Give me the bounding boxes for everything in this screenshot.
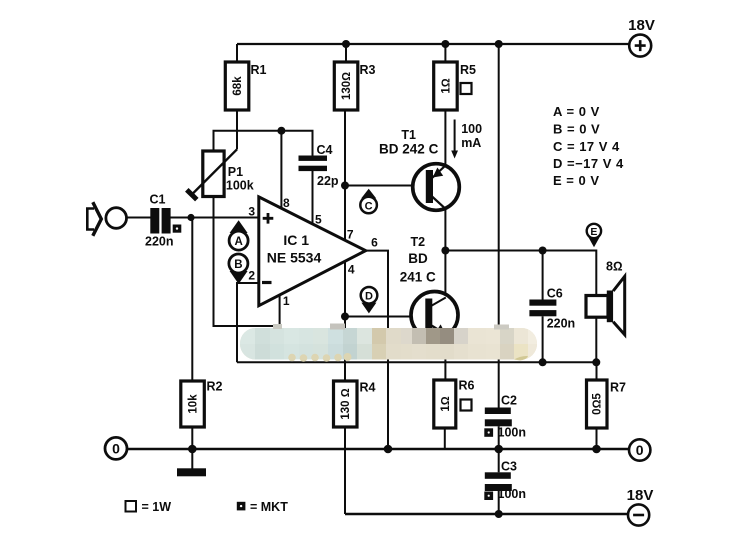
wire R6 bottom to 0V rail: [444, 428, 446, 449]
node R3 top rail junction: [342, 40, 350, 48]
svg-text:0: 0: [112, 441, 120, 457]
watermark blur pill: [240, 324, 537, 362]
node T2 base junction: [341, 313, 349, 321]
svg-text:C = 17 V 4: C = 17 V 4: [553, 139, 620, 154]
svg-text:241 C: 241 C: [400, 269, 436, 284]
op-amp U1 NE5534 triangle: [259, 197, 366, 306]
svg-text:5: 5: [315, 212, 322, 226]
svg-text:R1: R1: [251, 63, 267, 77]
node pin6 line on 0V rail: [384, 445, 393, 454]
svg-text:100: 100: [461, 122, 482, 136]
capacitor C6 220n plates: [529, 300, 556, 306]
wire P1 top terminal to C4 top: [214, 131, 313, 156]
svg-text:1Ω: 1Ω: [440, 396, 452, 411]
svg-text:100k: 100k: [226, 179, 254, 193]
svg-text:7: 7: [347, 227, 354, 241]
wire R4 bottom to -18V rail: [344, 427, 346, 514]
watermark bottom text bumps: [288, 353, 351, 362]
node input junction: [187, 214, 194, 221]
wire feedback line: [237, 361, 596, 363]
svg-text:10k: 10k: [188, 394, 200, 414]
svg-text:220n: 220n: [145, 235, 174, 249]
ground symbol: [177, 468, 206, 476]
svg-text:0Ω5: 0Ω5: [592, 393, 604, 415]
resistor R5 1ohm: [434, 62, 458, 110]
op-amp minus input sign: [262, 281, 272, 284]
svg-text:= MKT: = MKT: [250, 500, 288, 514]
potentiometer P1 100k body: [203, 151, 224, 197]
wire -18V bottom rail: [345, 513, 628, 515]
svg-text:BD: BD: [408, 251, 428, 266]
wire R2 bottom to 0V rail: [191, 427, 193, 449]
watermark olive wisp: [514, 356, 528, 361]
svg-text:100n: 100n: [498, 487, 527, 501]
wire T1 base: [345, 185, 427, 187]
svg-text:C6: C6: [547, 287, 563, 301]
svg-text:A: A: [234, 236, 242, 248]
capacitor C3 100n plates: [485, 472, 511, 479]
svg-text:= 1W: = 1W: [142, 500, 172, 514]
capacitor C4 22p plates: [299, 156, 328, 161]
wire C3 bottom lead: [498, 491, 500, 514]
node E test marker: [589, 237, 600, 247]
wire C3 top lead: [498, 449, 500, 472]
resistor R1 68k: [225, 62, 249, 110]
svg-text:mA: mA: [461, 136, 481, 150]
svg-text:4: 4: [348, 263, 355, 277]
node pin8 junction: [277, 127, 285, 135]
svg-text:R5: R5: [460, 63, 476, 77]
svg-text:8Ω: 8Ω: [606, 260, 623, 274]
node C2 branch rail junction: [495, 40, 503, 48]
wire R7 bottom lead: [596, 428, 598, 449]
svg-text:C2: C2: [501, 394, 517, 408]
svg-text:130Ω: 130Ω: [341, 72, 353, 100]
svg-text:6: 6: [371, 235, 378, 249]
wire decoupling branch from +18V rail down to C2: [498, 44, 500, 408]
resistor R7 0ohm5: [587, 380, 608, 428]
node C6 top junction: [539, 247, 547, 255]
power -18V terminal: [628, 504, 649, 525]
wire C6 top lead: [542, 251, 544, 300]
watermark top protrusion blocks: [273, 324, 282, 329]
svg-text:1: 1: [283, 294, 290, 308]
capacitor C2 100n plates: [485, 408, 511, 415]
node C test marker: [361, 189, 376, 199]
svg-text:NE 5534: NE 5534: [267, 250, 322, 266]
node A test marker: [230, 220, 248, 233]
1W square at R6: [461, 400, 472, 411]
input jack circle: [106, 208, 127, 229]
svg-text:R3: R3: [360, 63, 376, 77]
capacitor C1 MKT square: [173, 225, 182, 233]
svg-text:C1: C1: [150, 193, 166, 207]
svg-text:C: C: [365, 200, 373, 212]
svg-text:3: 3: [248, 205, 255, 219]
wire T2 base: [345, 316, 426, 318]
bottom row blocks: [240, 344, 537, 360]
svg-text:18V: 18V: [628, 17, 655, 34]
node C2-C3 on 0V rail: [494, 445, 503, 454]
resistor R2 10k: [181, 381, 205, 427]
op-amp plus input sign: [263, 213, 274, 224]
svg-text:E = 0 V: E = 0 V: [553, 173, 600, 188]
node B test marker: [230, 271, 248, 284]
transistor Q2 T2 BD241C: [411, 292, 458, 339]
wire T2 base node down to R4: [344, 317, 346, 382]
terminal 0V left: [105, 437, 127, 459]
arrow 100mA current: [454, 120, 456, 153]
svg-text:2: 2: [248, 269, 255, 283]
wire C2 bottom lead: [498, 426, 500, 449]
top row blocks: [240, 328, 537, 344]
wire op-amp pin 8: [280, 131, 282, 210]
node D test marker: [361, 303, 376, 314]
svg-text:68k: 68k: [232, 76, 244, 96]
wire R7 top lead: [596, 362, 598, 380]
svg-text:A = 0 V: A = 0 V: [553, 104, 600, 119]
wire P1 bottom to op-amp pin 1: [214, 197, 280, 327]
svg-text:R6: R6: [459, 379, 475, 393]
wire C6 bottom lead: [542, 316, 544, 362]
svg-text:D =−17 V 4: D =−17 V 4: [553, 156, 624, 171]
wire R5 top lead: [444, 44, 446, 62]
wire op-amp pin 6 output down to 0V rail: [366, 251, 388, 449]
svg-text:T1: T1: [401, 128, 416, 142]
svg-text:22p: 22p: [317, 174, 339, 188]
speaker LS 8ohm: [586, 296, 608, 318]
potentiometer P1 wiper arrow: [192, 149, 237, 194]
wire ground stub: [191, 449, 193, 469]
wire C4 bottom to op-amp pin 5: [312, 171, 314, 225]
svg-text:R4: R4: [360, 381, 376, 395]
power +18V terminal: [629, 35, 651, 57]
legend MKT square: [237, 502, 246, 511]
svg-text:220n: 220n: [547, 317, 576, 331]
wire R1 top lead: [236, 44, 238, 62]
svg-text:R2: R2: [207, 380, 223, 394]
potentiometer P1 adjuster bar: [187, 190, 197, 200]
svg-text:E: E: [590, 226, 597, 238]
svg-text:100n: 100n: [498, 425, 527, 439]
node C3 on -18V rail: [495, 510, 503, 518]
wire output node to speaker top: [445, 251, 596, 296]
wire R3 bottom to op-amp pin 7: [344, 110, 346, 241]
wire op-amp pin 2 to feedback node: [237, 283, 259, 362]
wire input jack to C1: [127, 217, 151, 219]
svg-text:130 Ω: 130 Ω: [340, 388, 352, 419]
node output junction T1-T2: [441, 247, 449, 255]
wire T1 collector to T2 collector: [444, 209, 446, 299]
legend 1W square: [126, 501, 137, 512]
wire 0V rail: [127, 448, 629, 451]
svg-text:P1: P1: [228, 165, 243, 179]
svg-text:C3: C3: [501, 460, 517, 474]
wire input node down to R2: [191, 218, 193, 382]
wire C1 to op-amp pin 3: [171, 217, 259, 219]
svg-text:0: 0: [636, 442, 644, 458]
capacitor C3 MKT square: [484, 492, 493, 501]
wire op-amp pin 4 to T2 base node: [344, 261, 346, 316]
node R5 top rail junction: [441, 40, 449, 48]
1W square at R5: [461, 83, 472, 94]
capacitor C1 220n plates: [150, 208, 159, 234]
resistor R6 1ohm: [434, 380, 456, 428]
node C6 bottom junction: [539, 358, 547, 366]
capacitor C2 MKT square: [484, 428, 493, 437]
svg-text:T2: T2: [411, 235, 426, 249]
svg-text:D: D: [365, 291, 373, 303]
svg-text:R7: R7: [610, 381, 626, 395]
node R7 on 0V rail: [592, 445, 601, 454]
svg-text:B = 0 V: B = 0 V: [553, 122, 600, 137]
wire T2 emitter to R6: [444, 334, 446, 381]
wire +18V top rail: [237, 43, 629, 45]
svg-text:IC 1: IC 1: [283, 232, 309, 248]
svg-text:1Ω: 1Ω: [440, 78, 452, 93]
svg-text:BD 242 C: BD 242 C: [379, 142, 439, 157]
wire R5 bottom to T1 emitter: [444, 110, 446, 166]
resistor R4 130ohm: [334, 381, 358, 427]
input connector symbol: [87, 209, 94, 230]
transistor Q1 T1 BD242C: [413, 164, 460, 211]
svg-text:18V: 18V: [627, 487, 654, 504]
node T1 base junction: [341, 182, 349, 190]
svg-text:C4: C4: [317, 143, 333, 157]
svg-text:B: B: [234, 259, 242, 271]
svg-text:8: 8: [283, 196, 290, 210]
wire R1 bottom to P1 wiper: [236, 110, 238, 149]
node speaker bottom junction: [592, 358, 600, 366]
wire speaker bottom lead: [595, 317, 597, 362]
node R2 on 0V rail: [188, 445, 197, 454]
terminal 0V right: [629, 439, 650, 460]
resistor R3 130ohm: [334, 62, 358, 110]
wire R3 top lead: [345, 44, 347, 62]
